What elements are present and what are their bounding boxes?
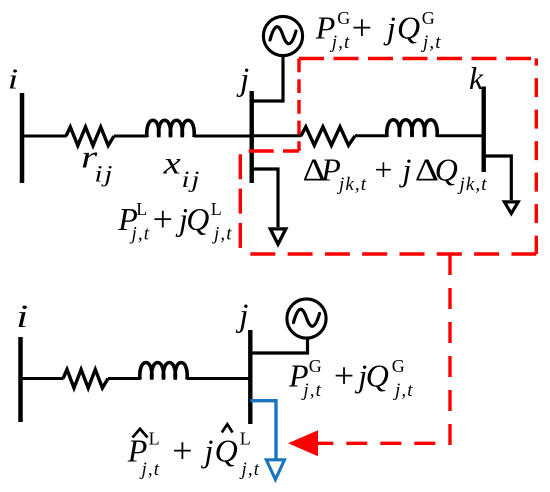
wire generator U2 to bus j xyxy=(252,338,308,353)
wire bus j to resistor (branch jk) xyxy=(254,134,302,137)
label deltaP_jk load branch xyxy=(303,152,488,195)
svg-text:i: i xyxy=(16,299,28,335)
svg-text:L: L xyxy=(240,429,251,449)
svg-text:j,t: j,t xyxy=(392,380,414,401)
svg-text:j: j xyxy=(399,152,412,188)
svg-text:Q: Q xyxy=(397,10,420,46)
svg-text:x: x xyxy=(163,145,181,180)
wire inductor to bus j (bottom) xyxy=(187,377,252,380)
wire resistor to inductor (bottom) xyxy=(108,377,141,380)
resistor R3 (bottom) xyxy=(63,370,108,389)
resistor R1 (r_ij) xyxy=(66,127,114,146)
label x_ij xyxy=(163,145,202,192)
wire generator U1 to bus j xyxy=(254,56,284,101)
bus i (top) xyxy=(20,93,25,183)
svg-text:P: P xyxy=(320,152,341,188)
svg-text:L: L xyxy=(149,429,160,449)
svg-text:G: G xyxy=(422,8,435,28)
red dashed region box left edge lower xyxy=(239,151,242,254)
red dashed region box jog edge xyxy=(240,149,299,152)
svg-text:j,t: j,t xyxy=(420,32,442,53)
blue load arrow xyxy=(266,460,284,480)
svg-text:j,t: j,t xyxy=(329,32,351,53)
resistor R2 (branch jk) xyxy=(301,127,355,146)
svg-text:j: j xyxy=(201,432,214,468)
svg-text:j: j xyxy=(236,62,249,98)
label r_ij xyxy=(81,140,114,187)
inductor L1 (x_ij) xyxy=(147,120,194,137)
svg-text:G: G xyxy=(392,356,405,376)
svg-text:Q: Q xyxy=(215,432,238,468)
svg-text:j: j xyxy=(235,298,248,334)
svg-text:G: G xyxy=(337,8,350,28)
svg-text:Q: Q xyxy=(435,152,458,188)
red dashed connector wire xyxy=(318,254,450,443)
wire inductor to bus j xyxy=(194,135,253,138)
generator U2 sine xyxy=(294,309,320,326)
node i label (top) xyxy=(8,63,18,95)
red dashed region box left edge upper xyxy=(297,59,300,152)
svg-text:ij: ij xyxy=(95,161,115,187)
svg-text:j: j xyxy=(383,10,396,46)
load arrow at bus k xyxy=(504,202,518,214)
node i label (bottom) xyxy=(16,299,28,335)
svg-text:i: i xyxy=(8,63,18,95)
bus j (bottom) xyxy=(248,330,252,424)
generator U1 circle xyxy=(263,16,302,55)
blue wire bus j load tap xyxy=(250,401,276,460)
svg-text:j,t: j,t xyxy=(300,380,322,401)
red dashed region box right edge xyxy=(535,59,538,255)
svg-text:j,t: j,t xyxy=(239,459,261,480)
wire bus j load tap xyxy=(252,169,278,227)
wire inductor to bus k xyxy=(437,134,483,137)
svg-text:+: + xyxy=(153,199,173,239)
svg-text:Q: Q xyxy=(186,201,209,237)
bus j (top) xyxy=(249,91,253,183)
bus i (bottom) xyxy=(18,337,23,422)
svg-text:+: + xyxy=(172,430,192,470)
svg-text:+: + xyxy=(374,152,392,188)
inductor L3 (bottom) xyxy=(140,363,187,380)
label Phat_L_jt load bottom xyxy=(127,424,260,480)
svg-text:ij: ij xyxy=(182,167,202,193)
wire resistor to inductor (branch jk) xyxy=(355,134,388,137)
svg-text:jk,t: jk,t xyxy=(457,174,488,195)
wire resistor to inductor x_ij xyxy=(114,135,148,138)
svg-text:L: L xyxy=(136,199,147,219)
wire i to resistor r_ij xyxy=(22,135,67,138)
red dashed region box top edge xyxy=(299,57,536,60)
svg-text:jk,t: jk,t xyxy=(336,174,367,195)
red dashed region box bottom edge xyxy=(240,252,536,255)
wire bus k load tap xyxy=(484,156,512,200)
generator U2 circle xyxy=(287,299,326,338)
svg-text:j,t: j,t xyxy=(211,223,233,244)
label P_L_jt load j xyxy=(117,199,232,244)
label P_G_jt generator top xyxy=(315,8,442,53)
svg-text:G: G xyxy=(309,356,322,376)
inductor L2 (branch jk) xyxy=(387,120,437,137)
wire i to resistor (bottom) xyxy=(21,377,64,380)
red arrow head xyxy=(288,430,318,456)
label P_G_jt generator bottom xyxy=(288,355,414,401)
svg-text:+: + xyxy=(352,8,372,48)
svg-text:+: + xyxy=(334,355,354,395)
svg-text:L: L xyxy=(211,199,222,219)
svg-text:j,t: j,t xyxy=(139,459,161,480)
svg-text:Q: Q xyxy=(366,357,389,393)
load arrow at bus j xyxy=(270,229,286,244)
bus k xyxy=(482,87,486,173)
svg-text:j,t: j,t xyxy=(129,223,151,244)
generator U1 sine xyxy=(270,27,296,44)
